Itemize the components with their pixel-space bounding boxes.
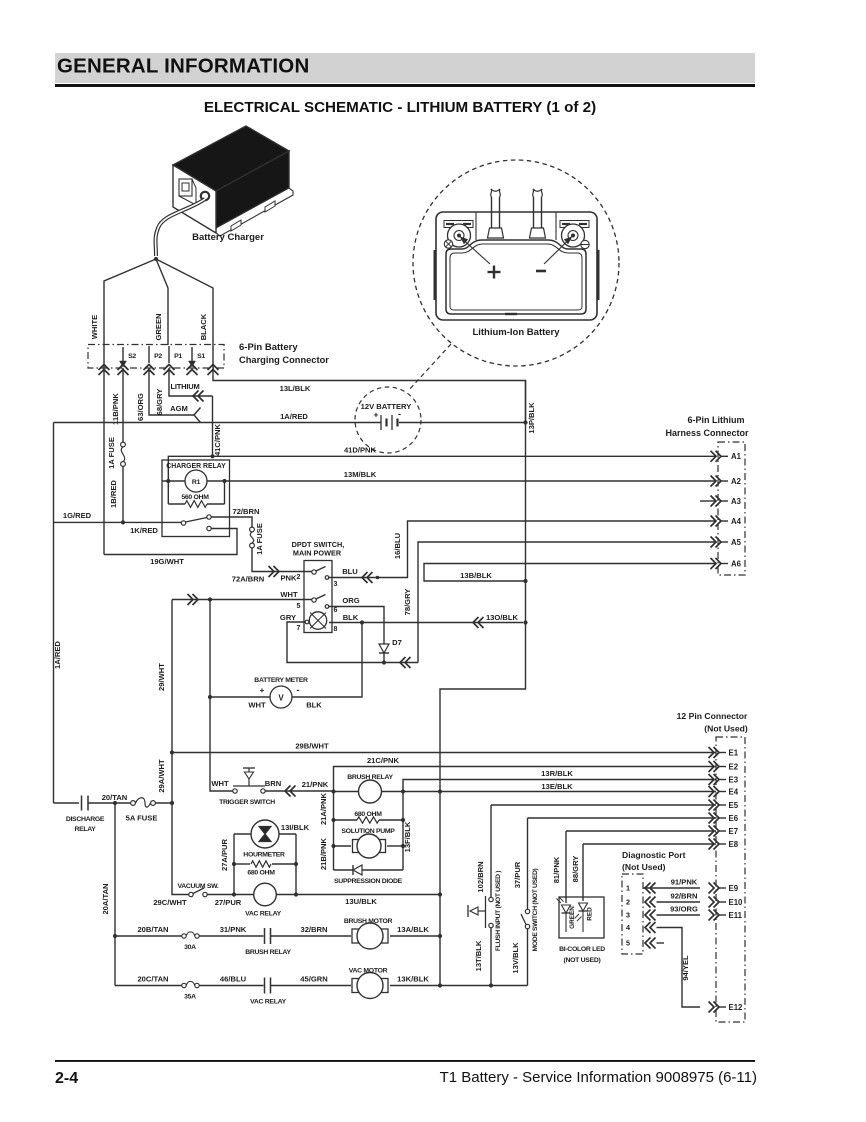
svg-text:21/PNK: 21/PNK (302, 780, 329, 789)
wire 94/YEL (657, 928, 701, 1008)
solution pump wires (334, 845, 352, 847)
pin A2 chevron (711, 476, 717, 487)
svg-text:92/BRN: 92/BRN (670, 892, 697, 901)
pin A3 stub (721, 500, 728, 502)
pin E6 chevron (709, 813, 715, 824)
lithium battery cable stub right (533, 197, 535, 228)
svg-text:E8: E8 (729, 840, 739, 849)
svg-text:AGM: AGM (170, 404, 188, 413)
svg-text:5: 5 (626, 939, 630, 948)
pin E1 chevron (709, 747, 715, 758)
brush motor (352, 929, 359, 943)
wire 13V/BLK (527, 929, 529, 986)
wire 13A/BLK (390, 935, 440, 937)
junction vac left (232, 892, 236, 896)
svg-text:13V/BLK: 13V/BLK (511, 942, 520, 974)
connector bottom chevron 5 (187, 365, 198, 371)
pin E10 chevron (709, 897, 715, 908)
lithium battery label strip right (560, 221, 589, 228)
wire E5 line (491, 804, 716, 806)
wire 13B/BLK jog (424, 564, 716, 582)
lithium battery outer body (436, 212, 597, 320)
wire 29B/WHT to E1 (172, 752, 716, 754)
LITHIUM chevrons (193, 391, 199, 402)
svg-text:Harness Connector: Harness Connector (665, 428, 749, 438)
suppression diode wire (334, 869, 404, 871)
svg-text:21A/PNK: 21A/PNK (319, 792, 328, 825)
pin A6 chevron (711, 558, 717, 569)
pin A4 chevron (711, 516, 717, 527)
lithium battery front panel inner (450, 244, 582, 310)
svg-text:13A/BLK: 13A/BLK (397, 925, 429, 934)
junction hm 680 left (232, 862, 236, 866)
wire BLK pin8 (329, 622, 523, 624)
junction 29B (170, 750, 174, 754)
svg-text:1A/RED: 1A/RED (280, 412, 308, 421)
svg-text:13F/BLK: 13F/BLK (403, 821, 412, 852)
pin E10 stub (719, 901, 726, 903)
pin E11 stub (719, 914, 726, 916)
lithium battery cable stub left (491, 197, 493, 228)
svg-text:41D/PNK: 41D/PNK (344, 446, 377, 455)
wire 41C/PNK (212, 396, 214, 456)
pin E2 chevron (709, 761, 715, 772)
wire 13M/BLK (238, 480, 716, 482)
wire left rail down (53, 423, 55, 804)
wire BLU pin3 (329, 577, 405, 579)
svg-text:BRUSH RELAY: BRUSH RELAY (245, 949, 291, 956)
svg-text:Lithium-Ion Battery: Lithium-Ion Battery (472, 327, 560, 338)
battery charger AC connector (179, 179, 192, 196)
svg-text:BLACK: BLACK (199, 313, 208, 340)
svg-text:ELECTRICAL SCHEMATIC - LITHIUM: ELECTRICAL SCHEMATIC - LITHIUM BATTERY (… (204, 99, 596, 116)
junction 13K 13T (489, 983, 493, 987)
relay coil circle R1 (185, 470, 207, 492)
lithium battery top divider right (555, 212, 557, 240)
svg-text:Battery Charger: Battery Charger (192, 232, 264, 243)
wire D7 to 78/GRY (384, 662, 418, 664)
svg-text:29A/WHT: 29A/WHT (157, 759, 166, 793)
wire 29WHT rail (171, 600, 173, 804)
wire 11B/PNK (122, 368, 124, 442)
diagnostic pin 1 chevron (645, 883, 651, 894)
svg-text:HOURMETER: HOURMETER (243, 852, 285, 859)
DPDT pole1 contact (312, 570, 316, 574)
svg-text:29/WHT: 29/WHT (157, 663, 166, 691)
pin E9 stub (719, 887, 726, 889)
junction 20B (113, 934, 117, 938)
wire 1B/RED (122, 466, 124, 522)
wire trigger WHT (210, 697, 233, 791)
pin A5 stub (721, 541, 728, 543)
svg-text:13E/BLK: 13E/BLK (541, 782, 573, 791)
chevron 21/PNK (285, 786, 291, 797)
svg-text:BI-COLOR LED: BI-COLOR LED (559, 946, 605, 953)
wire 27/PUR (207, 894, 253, 896)
wire 72/BRN to fuse (211, 517, 252, 528)
svg-text:46/BLU: 46/BLU (220, 975, 247, 984)
pin S1 arrow (191, 347, 193, 361)
svg-text:CHARGER RELAY: CHARGER RELAY (166, 463, 226, 470)
junction D7 bottom (382, 660, 386, 664)
junction BLK meter (360, 620, 364, 624)
svg-text:32/BRN: 32/BRN (300, 925, 327, 934)
svg-text:A5: A5 (731, 538, 742, 547)
svg-text:WHT: WHT (248, 701, 266, 710)
junction 29A rail (170, 801, 174, 805)
battery charger cable (156, 199, 206, 256)
wire 20C/TAN (115, 985, 182, 987)
wire 20B/TAN (115, 935, 182, 937)
svg-text:WHT: WHT (211, 779, 229, 788)
relay R1 coil wire (162, 480, 185, 482)
svg-text:13K/BLK: 13K/BLK (397, 975, 429, 984)
rail 21A/PNK (333, 792, 335, 871)
svg-text:94/YEL: 94/YEL (681, 955, 690, 981)
svg-text:37/PUR: 37/PUR (513, 861, 522, 888)
DPDT switch box (304, 561, 332, 633)
pin A1 chevron (711, 451, 717, 462)
junction 1G/1B (121, 520, 125, 524)
DPDT pin7 contact (305, 620, 309, 624)
svg-text:1: 1 (626, 884, 630, 893)
svg-text:27/PUR: 27/PUR (215, 898, 242, 907)
svg-text:E3: E3 (729, 775, 739, 784)
svg-text:13O/BLK: 13O/BLK (486, 613, 519, 622)
battery charger foot 1 (231, 220, 241, 231)
svg-text:1G/RED: 1G/RED (63, 511, 92, 520)
svg-text:(Not Used): (Not Used) (622, 862, 666, 872)
svg-text:+: + (260, 686, 265, 695)
svg-text:VAC RELAY: VAC RELAY (250, 999, 286, 1006)
svg-text:13L/BLK: 13L/BLK (280, 384, 311, 393)
svg-text:81/PNK: 81/PNK (552, 856, 561, 883)
svg-text:63/ORG: 63/ORG (136, 393, 145, 421)
hourmeter circle (251, 820, 279, 848)
wire E7 line (566, 830, 716, 832)
battery charger cable grommet (201, 192, 209, 200)
svg-text:16/BLU: 16/BLU (393, 532, 402, 559)
svg-text:1B/RED: 1B/RED (109, 480, 118, 508)
svg-text:(NOT USED): (NOT USED) (564, 957, 601, 964)
svg-text:72A/BRN: 72A/BRN (232, 575, 265, 584)
junction pump right (401, 844, 405, 848)
wire brush relay right (382, 791, 717, 793)
lithium battery terminal left (448, 224, 471, 247)
pin S2 arrow (122, 347, 124, 361)
charger cable junction (154, 257, 158, 261)
svg-text:+: + (374, 410, 379, 420)
wire E6 line (528, 817, 717, 819)
relay switch common contact (181, 521, 185, 525)
wire 1A/RED right (399, 422, 526, 424)
junction 41C/41D (210, 454, 214, 458)
charger relay box (162, 460, 230, 537)
wire 19G/WHT (104, 529, 237, 555)
svg-text:VACUUM SW.: VACUUM SW. (178, 883, 219, 890)
pin E9 chevron (709, 883, 715, 894)
pin E12 chevron (709, 1002, 715, 1013)
battery symbol (380, 415, 382, 430)
connector bottom chevron 3 (144, 365, 155, 371)
wire 13K/BLK (390, 985, 528, 987)
solution pump motor (353, 840, 360, 853)
svg-text:ORG: ORG (342, 596, 359, 605)
pin E6 stub (719, 817, 726, 819)
lithium battery terminal right (562, 224, 585, 247)
junction hm 680 right (294, 862, 298, 866)
vacuum switch blade (193, 888, 204, 894)
junction pump left (331, 844, 335, 848)
wire 72A/BRN (252, 548, 312, 572)
svg-text:WHT: WHT (280, 590, 298, 599)
pin A1 stub (721, 455, 728, 457)
svg-text:2: 2 (297, 574, 301, 581)
svg-text:45/GRN: 45/GRN (300, 975, 327, 984)
svg-text:20A/TAN: 20A/TAN (101, 883, 110, 914)
svg-text:PNK: PNK (280, 574, 297, 583)
dot BLU (376, 576, 380, 580)
connector bottom chevron 6 (208, 365, 219, 371)
lithium battery top divider left (475, 212, 477, 240)
svg-text:6: 6 (334, 607, 338, 614)
svg-text:6-Pin Lithium: 6-Pin Lithium (688, 415, 745, 425)
pin E2 stub (719, 766, 726, 768)
wire ORG pin6 (329, 607, 384, 642)
svg-text:560 OHM: 560 OHM (181, 494, 209, 501)
svg-text:2-4: 2-4 (55, 1070, 78, 1087)
wire charger to WHITE (104, 259, 156, 345)
page header underline (55, 84, 755, 87)
wire meter left (210, 696, 270, 698)
chevron BLU (362, 572, 368, 583)
chevron D7 line (400, 657, 406, 668)
svg-text:E2: E2 (729, 762, 739, 771)
battery charger flange (216, 188, 293, 236)
pin A2 stub (721, 480, 728, 482)
junction 13U bus (438, 892, 442, 896)
flush input bar (485, 896, 487, 928)
svg-text:P2: P2 (154, 353, 162, 360)
svg-text:1A/RED: 1A/RED (53, 641, 62, 669)
wire 13U/BLK (276, 894, 440, 896)
pin E7 stub (719, 830, 726, 832)
wire 102/BRN (490, 805, 492, 898)
wire through connector pos1 (103, 345, 105, 368)
plus label (488, 271, 501, 273)
wire 68/GRY LITHIUM (169, 368, 213, 396)
red LED (579, 903, 588, 911)
callout pointer dashed line (408, 344, 451, 391)
battery charger foot 2 (265, 201, 275, 212)
svg-text:Diagnostic Port: Diagnostic Port (622, 850, 686, 860)
pin E1 stub (719, 752, 726, 754)
mode switch contacts (525, 909, 529, 913)
connector bottom chevron 4 (164, 365, 175, 371)
DPDT pole1 blade (316, 567, 326, 572)
DPDT pole2 throw dot (325, 605, 329, 609)
lithium battery side tab right (597, 250, 599, 300)
svg-text:2: 2 (626, 898, 630, 907)
svg-text:BATTERY METER: BATTERY METER (254, 677, 308, 684)
wire 45/GRN (271, 985, 352, 987)
svg-text:BLK: BLK (306, 701, 322, 710)
junction 20TAN (113, 801, 117, 805)
pin A5 chevron (711, 537, 717, 548)
svg-text:E12: E12 (729, 1003, 744, 1012)
wire BRN to 21PNK (265, 790, 332, 792)
svg-text:1A FUSE: 1A FUSE (255, 523, 264, 555)
plus terminal pointer (463, 240, 490, 265)
svg-text:A4: A4 (731, 517, 742, 526)
svg-text:MAIN POWER: MAIN POWER (293, 549, 342, 558)
wire 88/GRY (582, 844, 584, 901)
svg-text:30A: 30A (184, 944, 196, 951)
green LED (562, 905, 571, 913)
junction 1A/RED at 13P bus (523, 420, 527, 424)
svg-text:BLU: BLU (342, 567, 358, 576)
6-pin lithium connector box (718, 442, 745, 575)
wire E8 line (583, 843, 716, 845)
svg-text:RED: RED (587, 907, 594, 921)
wire 32/BRN (271, 935, 352, 937)
hourmeter rail right (295, 834, 297, 895)
diagnostic pin 3 chevron (645, 910, 651, 921)
wire WHT meter drop (209, 600, 211, 698)
wire meter right (292, 623, 362, 698)
junction brush right (401, 789, 405, 793)
svg-text:S2: S2 (128, 353, 136, 360)
svg-text:A1: A1 (731, 452, 742, 461)
wire 29C corner (172, 803, 189, 895)
relay switch blade (186, 518, 208, 523)
fuse 1A (72 BRN) (250, 527, 255, 532)
hourmeter right wire (279, 833, 296, 835)
hourmeter hourglass (259, 827, 271, 835)
wire 13T/BLK (490, 928, 492, 986)
svg-text:E7: E7 (729, 827, 739, 836)
pin E11 chevron (709, 910, 715, 921)
svg-text:WHITE: WHITE (90, 315, 99, 339)
svg-text:S1: S1 (197, 353, 205, 360)
svg-text:21C/PNK: 21C/PNK (367, 756, 400, 765)
chevron 13O/BLK (473, 617, 479, 628)
svg-text:35A: 35A (184, 994, 196, 1001)
pin A4 stub (721, 520, 728, 522)
svg-text:20B/TAN: 20B/TAN (137, 925, 168, 934)
svg-text:13U/BLK: 13U/BLK (345, 897, 377, 906)
pin E3 stub (719, 779, 726, 781)
svg-text:93/ORG: 93/ORG (670, 905, 698, 914)
svg-text:GRY: GRY (280, 613, 296, 622)
svg-text:5: 5 (297, 603, 301, 610)
svg-text:E11: E11 (729, 911, 743, 920)
wire charger to BLACK (156, 259, 213, 345)
svg-text:BRN: BRN (265, 779, 281, 788)
diagnostic pin 2 chevron (645, 897, 651, 908)
lithium battery label strip left (444, 221, 473, 228)
svg-text:88/GRY: 88/GRY (571, 856, 580, 883)
trigger switch bar (233, 785, 265, 787)
svg-text:LITHIUM: LITHIUM (170, 382, 199, 391)
svg-text:13T/BLK: 13T/BLK (474, 940, 483, 971)
DPDT pole1 throw dot (325, 576, 329, 580)
footer rule (55, 1060, 755, 1062)
svg-text:102/BRN: 102/BRN (476, 861, 485, 892)
svg-text:19G/WHT: 19G/WHT (150, 557, 184, 566)
page header gray bar (55, 53, 755, 83)
svg-text:GREEN: GREEN (154, 313, 163, 340)
fuse 35A (182, 983, 186, 987)
hourmeter left wire (234, 833, 251, 835)
pin E5 stub (719, 804, 726, 806)
junction 680 left (331, 818, 335, 822)
svg-text:20/TAN: 20/TAN (102, 793, 128, 802)
vac motor (352, 979, 359, 993)
svg-text:E4: E4 (729, 787, 739, 796)
lithium battery screw left (444, 240, 452, 248)
relay switch NC contact (207, 526, 211, 530)
minus label (536, 270, 546, 273)
pin P2 tick (148, 346, 150, 363)
svg-text:E10: E10 (729, 898, 744, 907)
svg-text:(Not Used): (Not Used) (704, 724, 748, 734)
battery charger left face (173, 165, 216, 233)
svg-text:R1: R1 (192, 479, 201, 486)
12-pin connector box (716, 737, 745, 1022)
svg-text:1A FUSE: 1A FUSE (107, 437, 116, 469)
AGM open arrow (194, 408, 201, 423)
svg-text:29C/WHT: 29C/WHT (153, 898, 187, 907)
svg-text:680 OHM: 680 OHM (354, 811, 382, 818)
bi-color led box (559, 897, 604, 938)
wire 92/BRN (657, 901, 701, 903)
wire brush relay left (334, 791, 359, 793)
svg-text:21B/PNK: 21B/PNK (319, 837, 328, 870)
pin E7 chevron (709, 826, 715, 837)
pin A6 stub (721, 563, 728, 565)
wire 93/ORG (657, 914, 701, 916)
relay switch NO contact (207, 515, 211, 519)
wire 31/PNK (199, 935, 263, 937)
svg-text:VAC RELAY: VAC RELAY (245, 911, 281, 918)
junction vac right (294, 892, 298, 896)
svg-text:RELAY: RELAY (74, 826, 96, 833)
svg-text:T1 Battery - Service Informati: T1 Battery - Service Information 9008975… (440, 1069, 757, 1086)
12V battery dashed circle (355, 387, 421, 453)
vac relay contact (264, 978, 266, 994)
pin E8 stub (719, 843, 726, 845)
svg-text:27A/PUR: 27A/PUR (220, 838, 229, 871)
connector bottom chevron 1 (99, 365, 110, 371)
DPDT lamp (309, 612, 326, 629)
svg-text:13R/BLK: 13R/BLK (541, 769, 573, 778)
svg-text:680 OHM: 680 OHM (247, 870, 275, 877)
diagnostic pin 5 chevron (645, 938, 651, 949)
svg-text:E1: E1 (729, 748, 739, 757)
svg-text:20C/TAN: 20C/TAN (137, 975, 168, 984)
svg-text:4: 4 (626, 923, 630, 932)
wire fuse to 29A rail (155, 802, 172, 804)
mode switch blade (521, 914, 526, 925)
resistor 680 OHM brush (334, 819, 358, 821)
chevron 72A/BRN (269, 566, 275, 577)
wire 46/BLU (199, 985, 263, 987)
svg-text:8: 8 (334, 626, 338, 633)
junction R1 left (166, 479, 170, 483)
discharge relay contact (81, 796, 83, 811)
junction R1 right (222, 479, 226, 483)
